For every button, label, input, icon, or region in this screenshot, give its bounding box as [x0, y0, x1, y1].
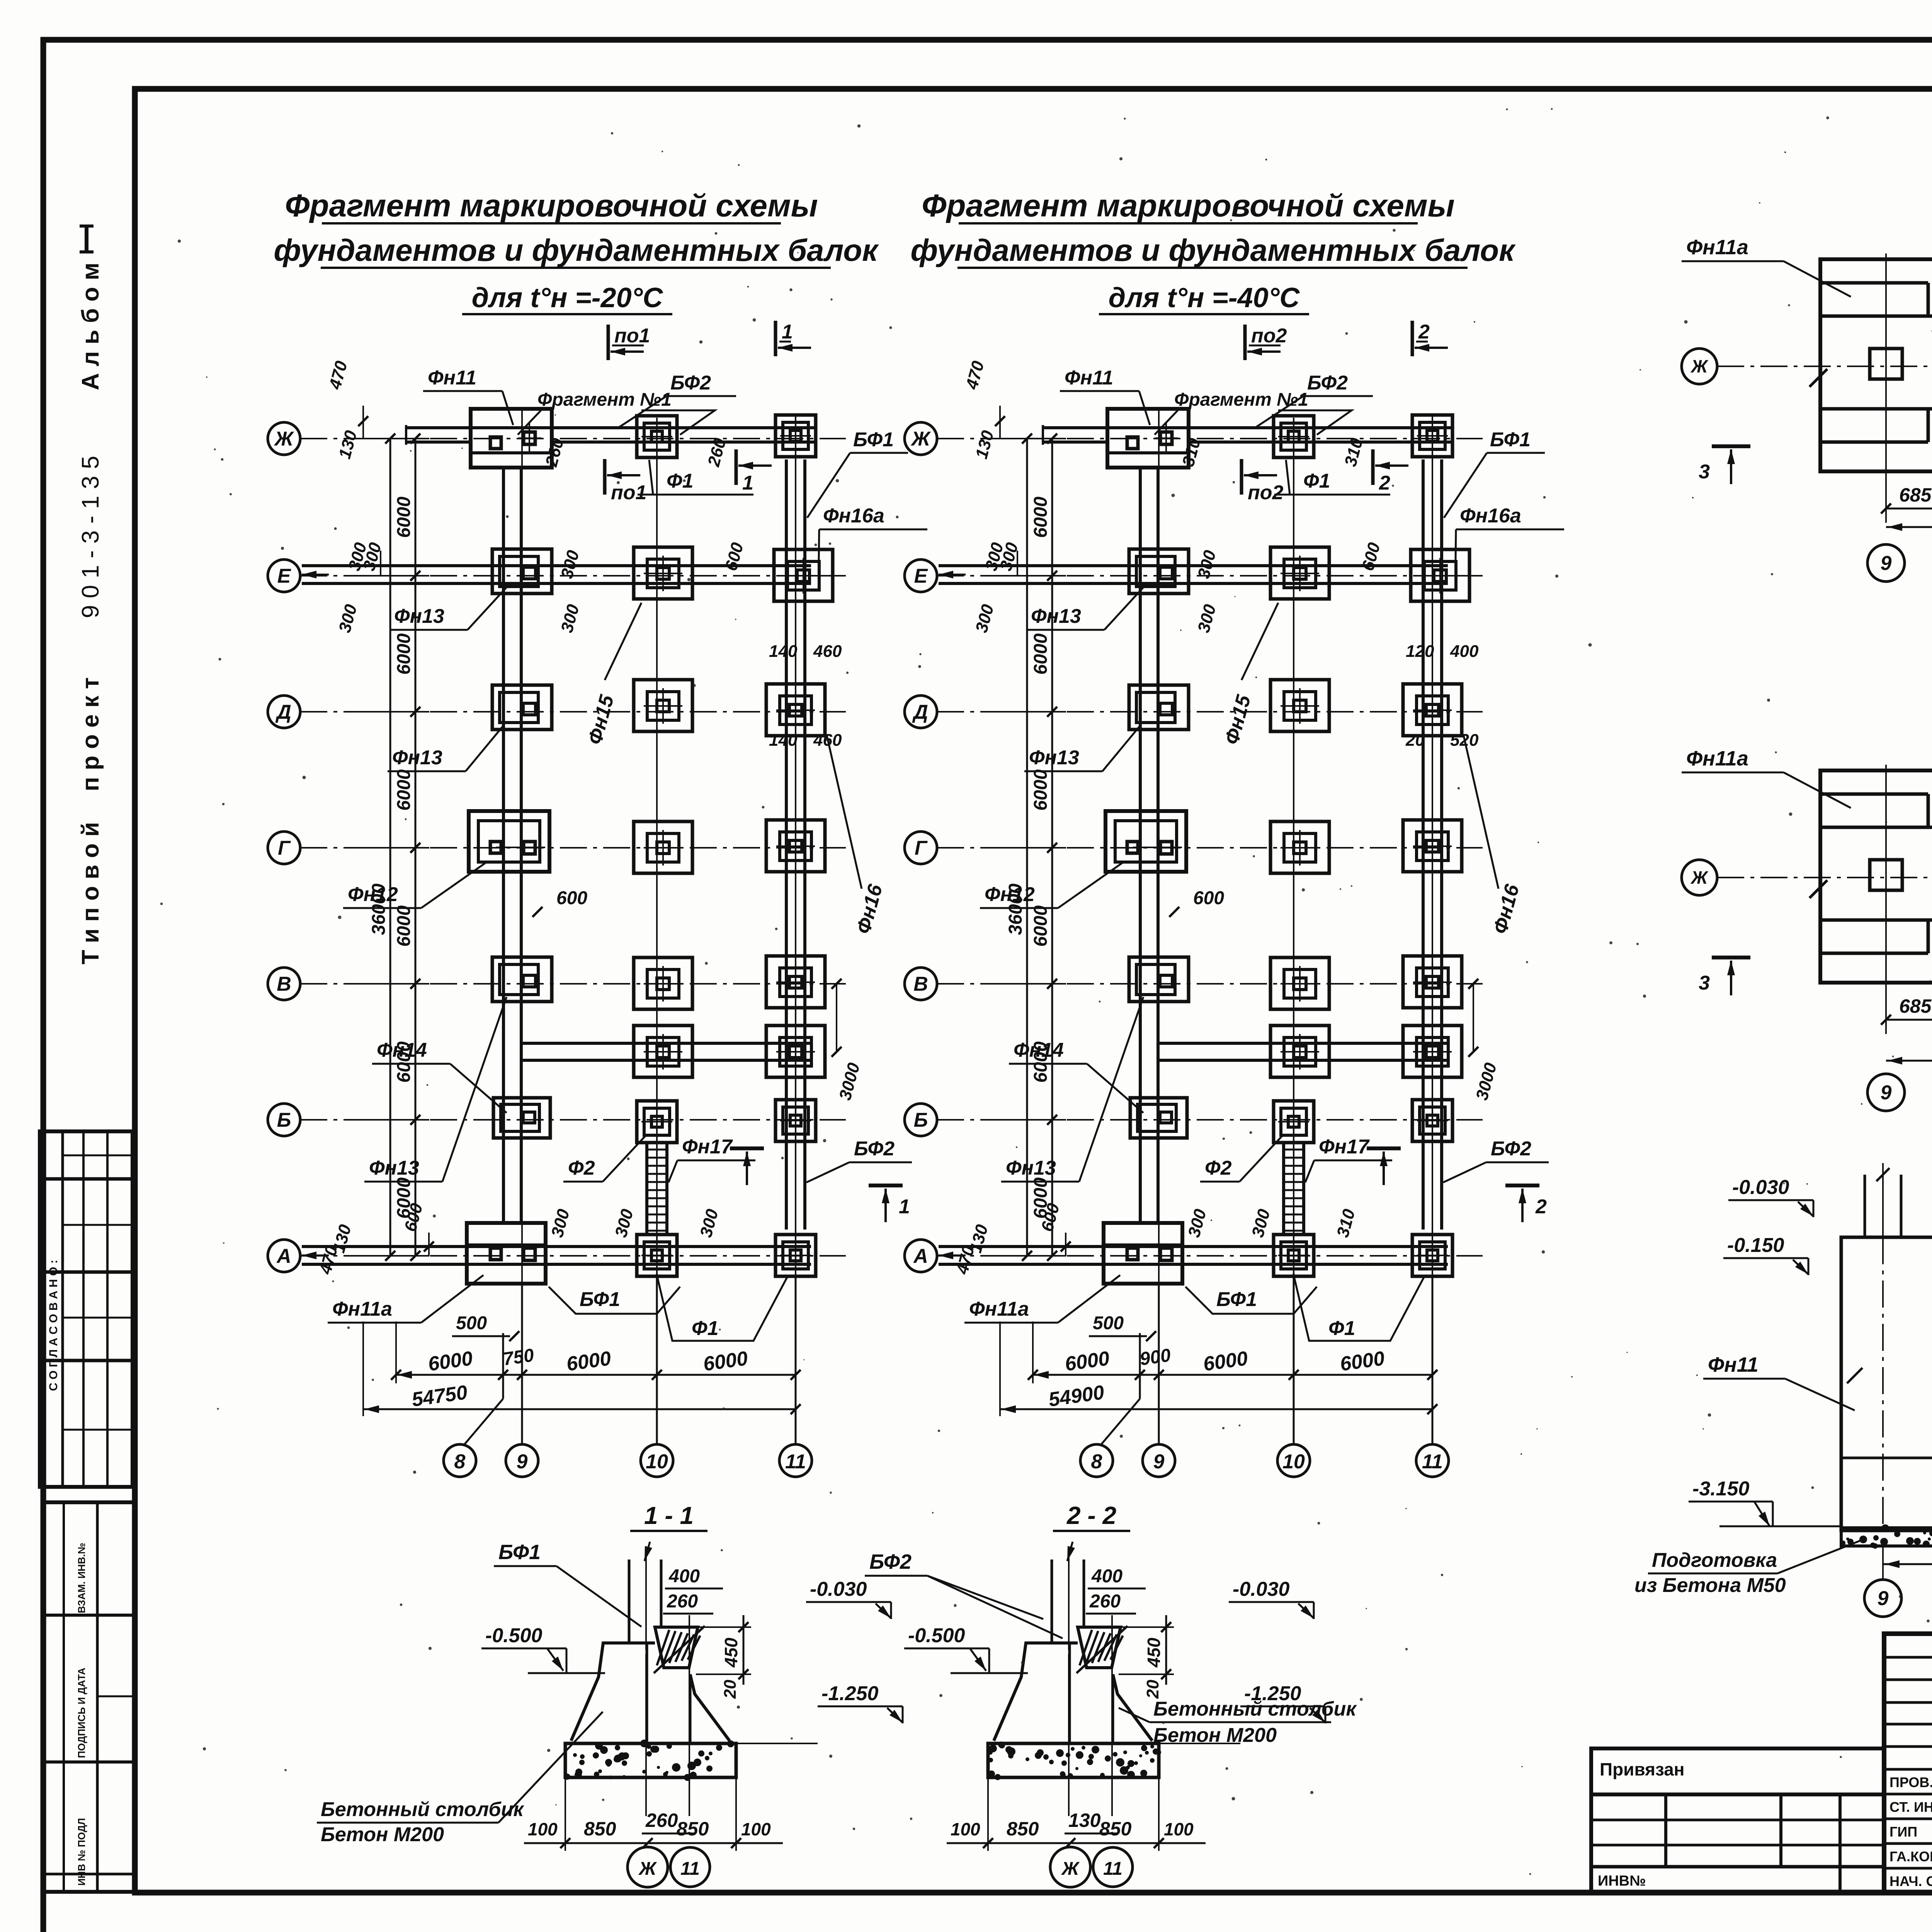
footing Фн11а row А col 9 (plan 1): [467, 1223, 546, 1284]
svg-text:850: 850: [1007, 1818, 1039, 1840]
svg-text:фундаментов и фундаментных бал: фундаментов и фундаментных балок: [274, 233, 879, 267]
row axis Г (plan 1): [300, 847, 846, 849]
svg-text:Фн11: Фн11: [428, 367, 476, 389]
dim 685 (fragment 2): [1885, 996, 1887, 1034]
svg-text:Фн17: Фн17: [1319, 1136, 1370, 1158]
intermediate foundation beam (plan 1): [521, 1042, 811, 1045]
row axis Д (plan 1): [300, 711, 846, 713]
svg-text:Фн12: Фн12: [985, 883, 1035, 906]
svg-text:260: 260: [1089, 1591, 1121, 1612]
footing Фн11 row Ж col 9 (plan 1): [471, 409, 552, 468]
footing row Б col 10 (plan 1): [637, 1101, 677, 1143]
row axis Ж (plan 2): [937, 438, 1483, 439]
svg-text:850: 850: [584, 1818, 616, 1840]
svg-text:100: 100: [951, 1819, 980, 1839]
title block outer: [1884, 1634, 1932, 1893]
section mark 2 bottom right (plan 2): [1505, 1184, 1539, 1187]
section mark 3 left (fragment 2): [1712, 956, 1750, 959]
footing Фн13 row В col 9 (plan 2): [1129, 957, 1189, 1002]
svg-text:Г: Г: [278, 837, 291, 859]
svg-text:-0.030: -0.030: [810, 1578, 867, 1600]
footing Фн14 row Б col 9 (plan 1): [493, 1098, 550, 1138]
footing Ф1 row Ж col 11 (plan 1): [776, 415, 816, 457]
bottom total dimension 54750 (plan 1): [363, 1408, 796, 1410]
column axis circles 8-11 (plan 1): [502, 1333, 504, 1399]
svg-text:520: 520: [1450, 731, 1479, 750]
svg-text:Фрагмент №1: Фрагмент №1: [537, 389, 672, 410]
row axis Ж (plan 1): [300, 438, 846, 439]
column axis circles 8-11 (plan 2): [1139, 1333, 1141, 1399]
svg-text:10: 10: [1282, 1451, 1305, 1473]
svg-text:-0.030: -0.030: [1732, 1176, 1789, 1199]
svg-text:Ж: Ж: [1061, 1859, 1080, 1879]
svg-text:БФ2: БФ2: [869, 1550, 912, 1573]
footing Фн15 row Е col 10 (plan 2): [1270, 547, 1329, 599]
row А foundation beam (plan 1): [302, 1245, 811, 1248]
foundation beam column 11 (plan 2): [1422, 459, 1425, 1230]
svg-text:Е: Е: [914, 565, 928, 587]
svg-text:20: 20: [1143, 1680, 1162, 1699]
svg-text:Фн11а: Фн11а: [969, 1298, 1029, 1320]
svg-text:850: 850: [1099, 1818, 1132, 1840]
svg-text:фундаментов и фундаментных бал: фундаментов и фундаментных балок: [910, 233, 1516, 267]
footing row Д col 10 (plan 2): [1270, 680, 1329, 731]
footing Фн11а plan (fragment 2): [1820, 770, 1932, 983]
strip footing Фн17 col 10 (plan 2): [1282, 1144, 1285, 1235]
svg-text:Фн13: Фн13: [1006, 1157, 1056, 1179]
svg-text:Бетон М200: Бетон М200: [1153, 1724, 1277, 1747]
svg-text:11: 11: [1422, 1451, 1443, 1473]
footing row Б col 10 (plan 2): [1274, 1101, 1314, 1143]
svg-text:Е: Е: [277, 565, 291, 587]
svg-text:В: В: [913, 973, 928, 995]
svg-text:Фн13: Фн13: [392, 747, 442, 769]
section mark по2 top (plan 2): [1243, 325, 1247, 360]
svg-text:11: 11: [785, 1451, 806, 1473]
row Е foundation beam (plan 1): [302, 564, 811, 567]
svg-text:6000: 6000: [394, 905, 414, 947]
left dimension chain 6x6000 (plan 2): [1051, 439, 1053, 1256]
svg-text:С О Г Л А С О В А Н О :: С О Г Л А С О В А Н О :: [47, 1260, 60, 1391]
svg-text:450: 450: [1144, 1638, 1164, 1668]
footing row Г col 10 (plan 2): [1270, 821, 1329, 873]
footing Фн16а row Е col 11 (plan 1): [774, 549, 833, 601]
svg-text:500: 500: [1093, 1313, 1124, 1333]
svg-text:СТ. ИНЖ: СТ. ИНЖ: [1889, 1799, 1932, 1815]
svg-text:100: 100: [528, 1819, 558, 1839]
svg-text:6000: 6000: [394, 769, 414, 811]
svg-text:850: 850: [677, 1818, 709, 1840]
footing row В col 11 (plan 2): [1403, 956, 1462, 1008]
svg-text:-0.500: -0.500: [485, 1624, 543, 1647]
footing Фн11а plan (fragment 1): [1820, 259, 1932, 471]
footing row Б col 11 (plan 2): [1412, 1100, 1452, 1141]
svg-text:685: 685: [1899, 995, 1932, 1017]
svg-text:Бетонный столбик: Бетонный столбик: [321, 1798, 524, 1821]
svg-text:ВЗАМ. ИНВ.№: ВЗАМ. ИНВ.№: [76, 1543, 87, 1613]
svg-text:А: А: [276, 1245, 291, 1267]
svg-text:Фн16а: Фн16а: [1460, 505, 1521, 527]
left dimension chain 6x6000 (plan 1): [415, 439, 417, 1256]
svg-text:А л ь б о м: А л ь б о м: [77, 263, 104, 390]
svg-text:А: А: [913, 1245, 928, 1267]
svg-text:БФ1: БФ1: [580, 1288, 620, 1311]
svg-text:9: 9: [1881, 552, 1892, 575]
footing Фн13 row Е col 9 (plan 1): [492, 549, 552, 594]
svg-text:Фн11а: Фн11а: [1686, 747, 1748, 770]
axis circles 9,10 (fragment 2): [1867, 1074, 1905, 1111]
svg-text:600: 600: [556, 888, 587, 908]
svg-text:Д: Д: [912, 701, 928, 723]
svg-text:2: 2: [1418, 321, 1430, 343]
section 2: axis circles Ж 11: [1050, 1847, 1090, 1887]
footing row Г col 11 (plan 1): [766, 820, 825, 872]
footing row А col 11 (plan 2): [1412, 1235, 1452, 1276]
svg-text:260: 260: [645, 1810, 678, 1831]
svg-text:-3.150: -3.150: [1692, 1478, 1750, 1500]
svg-text:6000: 6000: [394, 633, 414, 675]
column axis 10 (plan 1): [656, 418, 658, 1274]
svg-text:450: 450: [721, 1638, 741, 1668]
svg-text:БФ1: БФ1: [1490, 429, 1531, 451]
section mark near Фн17 (plan 2): [1367, 1146, 1401, 1150]
section 2: column БФ above: [1051, 1560, 1053, 1643]
svg-text:9: 9: [1878, 1587, 1889, 1610]
svg-text:п р о е к т: п р о е к т: [77, 677, 104, 791]
footing row Д col 11 (plan 1): [766, 684, 825, 736]
svg-text:140: 140: [769, 731, 798, 750]
svg-text:Фн11: Фн11: [1708, 1353, 1759, 1376]
row axis Е (plan 1): [300, 575, 846, 577]
footing intermediate row col 10 (plan 2): [1270, 1026, 1329, 1077]
section 1: dim 450/20: [698, 1626, 751, 1628]
foundation beam column 9 (plan 2): [1139, 468, 1142, 1223]
svg-text:Привязан: Привязан: [1600, 1759, 1685, 1779]
svg-text:БФ2: БФ2: [1491, 1138, 1531, 1160]
section 1: pier body: [571, 1643, 655, 1741]
section 2: dim 450/20: [1121, 1626, 1174, 1628]
title block lower-left table: [1591, 1794, 1884, 1893]
strip footing Фн17 col 10 (plan 1): [645, 1144, 648, 1235]
svg-text:Ж: Ж: [638, 1859, 657, 1879]
svg-text:460: 460: [813, 642, 842, 661]
svg-text:ГИП: ГИП: [1889, 1824, 1917, 1840]
section mark 3 left (fragment 1): [1712, 444, 1750, 448]
svg-text:2: 2: [1535, 1196, 1547, 1218]
footing Фн15 row Е col 10 (plan 1): [634, 547, 692, 599]
svg-text:-0.030: -0.030: [1233, 1578, 1290, 1600]
svg-text:Бетон М200: Бетон М200: [321, 1823, 444, 1846]
section mark по1 below row Ж (plan 1): [603, 459, 607, 495]
svg-text:8: 8: [454, 1451, 466, 1473]
row axis Б (plan 2): [937, 1119, 1483, 1121]
svg-text:600: 600: [1193, 888, 1224, 908]
svg-text:100: 100: [741, 1819, 771, 1839]
svg-text:2: 2: [1379, 472, 1390, 494]
footing Фн14 row Б col 9 (plan 2): [1130, 1098, 1187, 1138]
svg-text:для t°н =-40°C: для t°н =-40°C: [1109, 282, 1300, 313]
svg-text:20: 20: [721, 1680, 740, 1699]
svg-text:Бетонный столбик: Бетонный столбик: [1153, 1698, 1357, 1720]
footing row В col 10 (plan 2): [1270, 957, 1329, 1009]
footing Фн13 row Д col 9 (plan 2): [1129, 685, 1189, 730]
svg-text:Ж: Ж: [1690, 867, 1709, 888]
section mark 1 bottom right (plan 1): [869, 1184, 903, 1187]
section 3-3: pier Фн11: [1841, 1237, 1932, 1531]
axis Ж circle (fragment 1): [1682, 349, 1717, 384]
svg-text:2 - 2: 2 - 2: [1066, 1502, 1116, 1529]
svg-text:ИНВ № ПОДЛ: ИНВ № ПОДЛ: [76, 1818, 87, 1886]
svg-text:1: 1: [742, 472, 753, 494]
svg-text:460: 460: [813, 731, 842, 750]
svg-text:400: 400: [1091, 1566, 1122, 1587]
footing Фн11а row А col 9 (plan 2): [1104, 1223, 1182, 1284]
dim 6000 (fragment 2): [1886, 1060, 1932, 1062]
svg-text:500: 500: [456, 1313, 487, 1333]
footing row Б col 11 (plan 1): [776, 1100, 816, 1141]
section 1: column БФ above: [628, 1560, 631, 1643]
svg-text:10: 10: [646, 1451, 668, 1473]
footing Ф1 row Ж col 11 (plan 2): [1412, 415, 1452, 457]
intermediate foundation beam (plan 2): [1158, 1042, 1448, 1045]
section 1: axis lines: [645, 1654, 647, 1816]
footing Фн11 row Ж col 9 (plan 2): [1107, 409, 1189, 468]
section mark 2 below row Ж (plan 2): [1371, 449, 1375, 485]
footing row Д col 10 (plan 1): [634, 680, 692, 731]
row axis Д (plan 2): [937, 711, 1483, 713]
stamp table ВЗАМ ИНВ / ПОДПИСЬ И ДАТА / ИНВ N ПОДЛ: [43, 1502, 135, 1892]
svg-text:из Бетона М50: из Бетона М50: [1634, 1574, 1786, 1597]
footing Фн12 row Г col 9 (plan 2): [1105, 811, 1186, 872]
svg-text:Д: Д: [275, 701, 291, 723]
svg-text:ПОДПИСЬ И ДАТА: ПОДПИСЬ И ДАТА: [76, 1668, 87, 1758]
section 2: axis lines: [1068, 1654, 1070, 1816]
bottom dimension line 6000/900/6000/6000 (plan 2): [1033, 1374, 1432, 1376]
row А foundation beam (plan 2): [939, 1245, 1448, 1248]
svg-text:ИНВ№: ИНВ№: [1598, 1873, 1646, 1889]
section mark near Фн17 (plan 1): [730, 1146, 764, 1150]
footing row В col 11 (plan 1): [766, 956, 825, 1008]
svg-text:Б: Б: [914, 1109, 928, 1131]
svg-text:Фн14: Фн14: [1014, 1039, 1064, 1061]
column axis 10 (plan 2): [1293, 418, 1294, 1274]
svg-text:Фн13: Фн13: [1031, 605, 1081, 628]
svg-text:Фн13: Фн13: [1029, 747, 1079, 769]
footing row А col 10 (plan 1): [637, 1235, 677, 1276]
section 2: beam end bearing (hatched): [1078, 1627, 1121, 1668]
svg-text:Фн11: Фн11: [1065, 367, 1113, 389]
svg-text:Фн13: Фн13: [394, 605, 444, 628]
dim 685 (fragment 1): [1885, 485, 1887, 523]
svg-text:Б: Б: [277, 1109, 291, 1131]
svg-text:1: 1: [782, 321, 793, 343]
footing row Г col 10 (plan 1): [634, 821, 692, 873]
svg-text:6000: 6000: [394, 497, 414, 538]
svg-text:БФ1: БФ1: [498, 1541, 541, 1564]
bottom total dimension 54900 (plan 2): [1000, 1408, 1432, 1410]
section mark 1 top (plan 1): [774, 321, 777, 356]
svg-text:6000: 6000: [1031, 905, 1051, 947]
axis Ж circle (fragment 2): [1682, 860, 1717, 895]
svg-text:11: 11: [1103, 1859, 1122, 1879]
svg-text:260: 260: [667, 1591, 698, 1612]
row axis Б (plan 1): [300, 1119, 846, 1121]
svg-text:3: 3: [1699, 461, 1710, 483]
section mark по1 top (plan 1): [607, 325, 610, 360]
footing Ф1 row Ж col 10 (plan 2): [1274, 416, 1314, 457]
svg-text:Фн16а: Фн16а: [823, 505, 884, 527]
svg-text:по1: по1: [614, 325, 650, 347]
svg-text:900: 900: [1138, 1345, 1172, 1370]
svg-text:-0.500: -0.500: [908, 1624, 965, 1647]
section mark по2 below row Ж (plan 2): [1240, 459, 1243, 495]
svg-text:-1.250: -1.250: [821, 1682, 879, 1705]
svg-text:Фн14: Фн14: [377, 1039, 427, 1061]
svg-text:по2: по2: [1248, 481, 1284, 504]
svg-text:100: 100: [1164, 1819, 1194, 1839]
svg-text:Ж: Ж: [910, 428, 931, 450]
svg-text:6000: 6000: [1031, 633, 1051, 675]
svg-text:-0.150: -0.150: [1727, 1234, 1784, 1257]
row axis А (plan 1): [300, 1255, 846, 1257]
svg-text:Фн17: Фн17: [682, 1136, 733, 1158]
svg-text:20: 20: [1405, 731, 1425, 750]
svg-text:БФ2: БФ2: [670, 372, 711, 394]
footing Фн13 row Е col 9 (plan 2): [1129, 549, 1189, 594]
svg-text:Ф2: Ф2: [568, 1157, 595, 1179]
svg-text:Фрагмент №1: Фрагмент №1: [1174, 389, 1308, 410]
svg-text:ПРОВ.: ПРОВ.: [1889, 1774, 1932, 1790]
svg-text:1 - 1: 1 - 1: [644, 1502, 694, 1529]
svg-text:1: 1: [899, 1196, 910, 1218]
svg-text:Фрагмент маркировочной схемы: Фрагмент маркировочной схемы: [922, 188, 1454, 223]
svg-text:400: 400: [1450, 642, 1479, 661]
svg-text:для t°н =-20°C: для t°н =-20°C: [472, 282, 663, 313]
title block Привязан box: [1591, 1748, 1884, 1794]
svg-text:Подготовка: Подготовка: [1652, 1549, 1777, 1571]
row Е foundation beam (plan 2): [939, 564, 1448, 567]
footing intermediate row col 11 (plan 1): [766, 1026, 825, 1077]
svg-text:3: 3: [1699, 972, 1710, 994]
svg-text:Т и п о в о й: Т и п о в о й: [77, 822, 104, 964]
svg-text:ГА.КОНСТР: ГА.КОНСТР: [1889, 1849, 1932, 1864]
svg-text:Фн11а: Фн11а: [332, 1298, 392, 1320]
dim 6000 (fragment 1): [1886, 526, 1932, 528]
svg-text:Фн13: Фн13: [369, 1157, 419, 1179]
svg-text:БФ2: БФ2: [1307, 372, 1348, 394]
footing Фн16а row Е col 11 (plan 2): [1411, 549, 1469, 601]
svg-text:Фрагмент маркировочной схемы: Фрагмент маркировочной схемы: [285, 188, 818, 223]
svg-text:Ж: Ж: [1690, 356, 1709, 376]
svg-text:11: 11: [680, 1859, 700, 1879]
svg-text:6000: 6000: [1031, 769, 1051, 811]
row Ж foundation beam БФ2 (plan 1): [552, 426, 816, 429]
section mark 2 top (plan 2): [1411, 321, 1414, 356]
footing row А col 11 (plan 1): [776, 1235, 816, 1276]
svg-text:Г: Г: [915, 837, 928, 859]
svg-text:Ф1: Ф1: [1303, 470, 1330, 492]
footing Фн12 row Г col 9 (plan 1): [469, 811, 549, 872]
row axis В (plan 1): [300, 983, 846, 985]
section 1: beam end bearing (hatched): [655, 1627, 698, 1668]
svg-text:140: 140: [769, 642, 798, 661]
svg-text:6000: 6000: [1031, 497, 1051, 538]
footing intermediate row col 11 (plan 2): [1403, 1026, 1462, 1077]
section 1: axis circles Ж 11: [628, 1847, 668, 1887]
foundation beam column 9 (plan 1): [502, 468, 505, 1223]
foundation beam column 11 (plan 1): [785, 459, 788, 1230]
section 2: dims 100 850 850 100: [987, 1777, 989, 1851]
svg-text:Ж: Ж: [274, 428, 294, 450]
svg-text:9: 9: [1153, 1451, 1165, 1473]
svg-text:Ф1: Ф1: [692, 1317, 719, 1340]
section 2: pier body: [994, 1643, 1078, 1741]
footing row Д col 11 (plan 2): [1403, 684, 1462, 736]
section 1: dims 100 850 850 100: [565, 1777, 566, 1851]
svg-text:9: 9: [1881, 1082, 1892, 1104]
svg-text:685: 685: [1899, 484, 1932, 506]
section 1: footing pad with concrete texture: [565, 1743, 736, 1777]
svg-text:130: 130: [1068, 1810, 1101, 1831]
svg-text:по1: по1: [611, 481, 646, 504]
svg-text:120: 120: [1406, 642, 1434, 661]
svg-text:Ф1: Ф1: [1328, 1317, 1355, 1340]
svg-text:750: 750: [502, 1345, 535, 1370]
svg-text:9: 9: [517, 1451, 528, 1473]
svg-text:Фн12: Фн12: [348, 883, 398, 906]
section 3-3: dim 6000 and circles: [1882, 1546, 1884, 1580]
svg-text:по2: по2: [1251, 325, 1287, 347]
footing row В col 10 (plan 1): [634, 957, 692, 1009]
svg-text:400: 400: [668, 1566, 700, 1587]
svg-text:БФ1: БФ1: [853, 429, 894, 451]
section 3-3: footing pad hatch: [1841, 1528, 1932, 1546]
svg-text:БФ2: БФ2: [854, 1138, 895, 1160]
svg-text:БФ1: БФ1: [1216, 1288, 1257, 1311]
svg-text:НАЧ. ОТД: НАЧ. ОТД: [1889, 1873, 1932, 1889]
row axis В (plan 2): [937, 983, 1483, 985]
svg-text:8: 8: [1091, 1451, 1102, 1473]
row axis Е (plan 2): [937, 575, 1483, 577]
row Ж foundation beam БФ2 (plan 2): [1189, 426, 1452, 429]
footing Фн13 row Д col 9 (plan 1): [492, 685, 552, 730]
row axis А (plan 2): [937, 1255, 1483, 1257]
svg-text:Ф1: Ф1: [667, 470, 694, 492]
footing Ф1 row Ж col 10 (plan 1): [637, 416, 677, 457]
svg-text:Фн11а: Фн11а: [1686, 236, 1748, 259]
svg-text:Ф2: Ф2: [1205, 1157, 1232, 1179]
svg-text:9 0 1 - 3 - 1 3 5: 9 0 1 - 3 - 1 3 5: [77, 456, 104, 618]
section 2: footing pad with concrete texture: [988, 1743, 1159, 1777]
footing row Г col 11 (plan 2): [1403, 820, 1462, 872]
footing intermediate row col 10 (plan 1): [634, 1026, 692, 1077]
row axis Г (plan 2): [937, 847, 1483, 849]
section mark 1 below row Ж (plan 1): [735, 449, 738, 485]
stamp table СОГЛАСОВАНО: [40, 1131, 133, 1487]
section 3-3: column above pier: [1864, 1175, 1866, 1237]
footing Фн13 row В col 9 (plan 1): [492, 957, 552, 1002]
footing row А col 10 (plan 2): [1274, 1235, 1314, 1276]
bottom dimension line 6000/750/6000/6000 (plan 1): [396, 1374, 796, 1376]
svg-text:В: В: [277, 973, 291, 995]
axis circles 9,10 (fragment 1): [1867, 544, 1905, 582]
